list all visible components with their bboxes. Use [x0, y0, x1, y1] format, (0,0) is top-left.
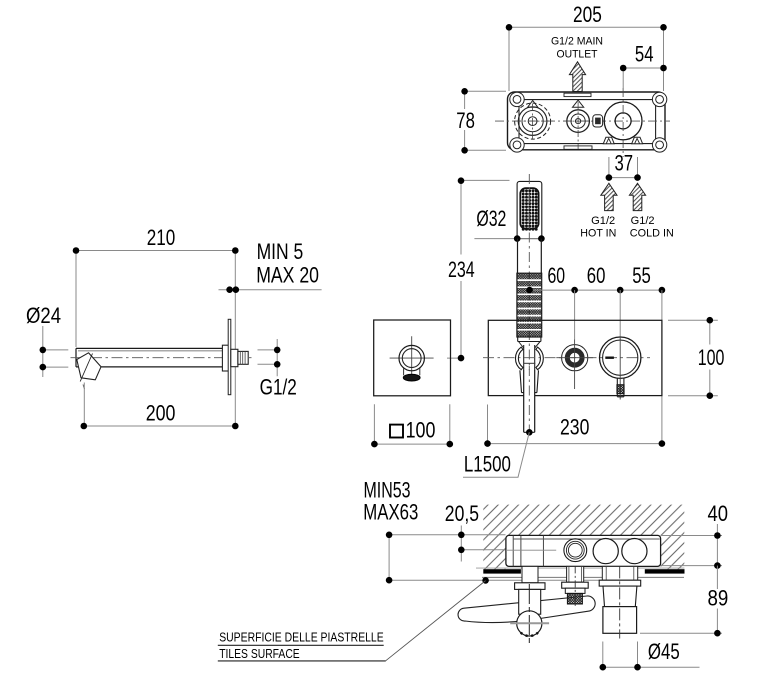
hose nut (knurled) — [567, 593, 582, 604]
hose — [524, 370, 535, 432]
corner screw top-right — [652, 92, 666, 106]
horizontal centre line through valves — [495, 120, 670, 122]
dimension 200 — [84, 383, 236, 427]
big valve left foot — [603, 137, 614, 143]
rough-in box inner frame — [519, 100, 656, 144]
dimension 40 (right) — [661, 524, 722, 566]
square-100 label — [390, 425, 403, 438]
tile layer lines — [476, 567, 684, 569]
svg-text:89: 89 — [708, 586, 729, 611]
svg-text:55: 55 — [632, 263, 651, 288]
dimension 210 — [76, 251, 235, 427]
svg-text:60: 60 — [587, 263, 606, 288]
dimension 60 60 55 line — [530, 289, 662, 291]
corner screw bottom-left — [510, 138, 524, 152]
svg-text:Ø32: Ø32 — [476, 206, 506, 231]
aerator tip (tilted) — [77, 353, 101, 380]
leader to tiles surface — [386, 581, 486, 661]
svg-text:G1/2 MAIN: G1/2 MAIN — [551, 35, 603, 47]
G1/2 thread — [238, 351, 248, 364]
spout supply circles — [593, 539, 618, 564]
square plate 100x100 — [374, 320, 451, 396]
dimension 230 — [488, 405, 662, 444]
cold inlet arrow (hatched) — [629, 183, 645, 210]
dimension 78 — [465, 91, 506, 150]
mixer cartridge stem — [522, 566, 538, 582]
corner screw top-left — [510, 92, 667, 152]
mixer knob ball — [517, 611, 542, 636]
extension lines from dim to plate — [575, 290, 662, 444]
spout flange — [599, 580, 641, 586]
MIN53/MAX63 dimension — [389, 535, 640, 581]
dimension 37 — [609, 157, 638, 178]
svg-text:SUPERFICIE DELLE PIASTRELLE: SUPERFICIE DELLE PIASTRELLE — [219, 630, 384, 645]
hand shower head — [517, 181, 542, 238]
tile dark bar left — [483, 569, 521, 573]
wand upper tube — [518, 239, 542, 274]
main outlet arrow (hatched, pointing up) — [569, 62, 585, 92]
svg-text:40: 40 — [708, 501, 729, 526]
holder stem centre line — [574, 566, 576, 608]
svg-text:100: 100 — [698, 345, 725, 370]
spout centre line — [71, 357, 252, 359]
svg-text:MIN 5: MIN 5 — [257, 239, 304, 264]
svg-text:G1/2: G1/2 — [591, 215, 615, 227]
svg-text:G1/2: G1/2 — [260, 374, 297, 399]
svg-text:54: 54 — [635, 41, 654, 66]
svg-text:37: 37 — [615, 151, 634, 176]
svg-text:COLD IN: COLD IN — [630, 227, 674, 239]
spout lower cylinder — [603, 607, 637, 634]
spout front view — [390, 336, 434, 380]
svg-text:TILES SURFACE: TILES SURFACE — [219, 646, 300, 661]
shower wand centre line — [528, 174, 530, 430]
main wall plate 230x100 — [488, 320, 662, 395]
left valve (plan) — [514, 100, 553, 140]
escutcheon collar — [222, 345, 228, 371]
holder pipe section ring — [564, 539, 587, 562]
svg-text:G1/2: G1/2 — [631, 215, 655, 227]
plate centre line — [483, 357, 650, 359]
spout tube — [76, 348, 222, 367]
shower holder bracket — [515, 347, 543, 370]
big valve (plan) — [604, 88, 642, 157]
svg-text:HOT IN: HOT IN — [580, 227, 616, 239]
svg-text:Ø45: Ø45 — [648, 639, 680, 664]
rough-in box outer body — [508, 92, 666, 150]
svg-text:MAX 20: MAX 20 — [256, 263, 319, 288]
svg-text:78: 78 — [456, 108, 475, 133]
big valve right foot — [632, 137, 643, 143]
dimension 100 (right) — [668, 320, 718, 396]
svg-text:205: 205 — [573, 2, 602, 27]
dimension 205 dots — [506, 24, 513, 31]
tile dark bar right — [645, 569, 685, 573]
svg-text:200: 200 — [146, 401, 176, 426]
dimension 234 — [447, 180, 510, 358]
connection nipple — [231, 349, 238, 366]
dimension 89 (right) — [640, 566, 722, 634]
wall plate — [228, 319, 231, 394]
svg-text:60: 60 — [548, 263, 566, 288]
leader dot on tiles surface — [482, 577, 489, 584]
dimension G1/2 — [258, 339, 278, 376]
cartridge inside body — [513, 535, 543, 566]
middle valve (plan) — [563, 100, 594, 149]
svg-text:210: 210 — [147, 225, 176, 250]
main handle — [600, 337, 641, 378]
svg-text:20,5: 20,5 — [445, 501, 479, 526]
holder stem — [567, 566, 584, 582]
MIN/MAX reference line — [219, 289, 322, 291]
wall hatch — [483, 505, 684, 570]
hot inlet arrow (hatched) — [601, 183, 617, 210]
small tag beside big valve — [593, 115, 603, 127]
svg-text:Ø24: Ø24 — [26, 303, 61, 328]
dimension 54 line — [623, 68, 663, 88]
20,5 reference line into body — [461, 549, 556, 551]
svg-text:234: 234 — [448, 257, 475, 282]
small control knob — [562, 345, 588, 371]
svg-text:OUTLET: OUTLET — [557, 48, 598, 60]
spout upper cylinder — [603, 586, 637, 607]
rough-in body (section) — [506, 535, 661, 566]
dimension diameter 45 — [603, 642, 700, 668]
dimension of square plate — [374, 404, 449, 444]
corner screw bottom-right — [652, 138, 666, 152]
spout stem centre line — [619, 566, 621, 638]
svg-text:MAX63: MAX63 — [363, 500, 418, 525]
mixer lever (behind) — [458, 596, 595, 623]
svg-text:230: 230 — [560, 415, 589, 440]
handle stem with knurled ring — [617, 378, 624, 396]
hose connector skirt — [520, 370, 539, 392]
spout hex nut — [602, 566, 637, 580]
dimension 205 line — [509, 27, 664, 91]
wand knurled grip band — [517, 273, 542, 337]
svg-text:100: 100 — [406, 418, 436, 443]
bottom mounting tab — [564, 146, 592, 149]
svg-text:L1500: L1500 — [464, 452, 511, 477]
top mounting tab — [564, 93, 591, 96]
wand lower tube — [518, 337, 541, 342]
